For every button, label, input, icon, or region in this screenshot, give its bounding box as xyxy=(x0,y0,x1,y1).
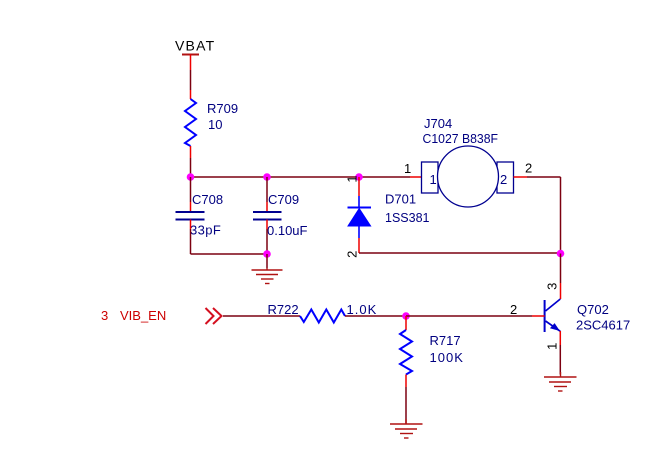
node junction at gnd rail xyxy=(263,250,271,258)
wire D701 top pin xyxy=(358,177,360,196)
wire emitter down xyxy=(559,331,561,345)
svg-text:J704: J704 xyxy=(424,116,452,131)
connector J704 (vibration motor) xyxy=(422,116,514,207)
wire vertical motor to junction xyxy=(560,177,562,254)
svg-text:Q702: Q702 xyxy=(577,302,609,317)
wire junction to R717 xyxy=(405,316,407,330)
wire bottom gnd rail xyxy=(191,253,268,255)
wire junction to collector xyxy=(560,254,562,284)
svg-text:3: 3 xyxy=(545,283,560,290)
svg-text:VIB_EN: VIB_EN xyxy=(120,308,166,323)
wire R722 to junction xyxy=(345,315,406,317)
svg-text:100K: 100K xyxy=(430,350,464,365)
wire VIB_EN to R722 xyxy=(223,315,300,317)
wire top rail xyxy=(191,176,411,178)
svg-text:R722: R722 xyxy=(268,302,299,317)
wire VBAT to R709 xyxy=(190,70,192,90)
node junction at D701 xyxy=(355,173,363,181)
svg-text:3: 3 xyxy=(101,308,108,323)
node junction at C709 xyxy=(263,173,271,181)
svg-text:2: 2 xyxy=(525,161,532,176)
ground (below C709) xyxy=(252,268,283,284)
diode D701 xyxy=(348,192,430,239)
svg-text:C1027 B838F: C1027 B838F xyxy=(423,131,499,146)
resistor R717 xyxy=(400,330,464,375)
capacitor C708 xyxy=(176,192,224,238)
ground (below Q702) xyxy=(544,372,577,391)
wire J704 pin2 to vertical xyxy=(514,176,528,178)
svg-text:2SC4617: 2SC4617 xyxy=(576,318,630,333)
svg-text:1: 1 xyxy=(404,161,411,176)
svg-text:33pF: 33pF xyxy=(190,223,221,238)
svg-text:VBAT: VBAT xyxy=(175,38,215,54)
svg-text:2: 2 xyxy=(345,251,360,258)
wire R717 to ground xyxy=(405,375,407,388)
svg-text:R709: R709 xyxy=(207,101,238,116)
wire D701 bottom pin xyxy=(358,238,360,253)
wire junction to Q702 base xyxy=(406,315,532,317)
wire C708 bottom xyxy=(190,220,192,230)
wire D701 to collector node xyxy=(359,252,561,254)
wire C709 bottom xyxy=(266,220,268,230)
transistor Q702 xyxy=(545,299,631,333)
svg-text:D701: D701 xyxy=(385,192,416,207)
resistor R709 xyxy=(185,99,238,146)
resistor R722 xyxy=(268,302,378,323)
wire C708 top xyxy=(190,177,192,202)
svg-text:C709: C709 xyxy=(268,192,299,207)
node junction collector xyxy=(557,250,565,258)
svg-text:2: 2 xyxy=(510,302,517,317)
svg-text:1.0K: 1.0K xyxy=(347,302,378,317)
capacitor C709 xyxy=(253,192,308,238)
svg-text:1: 1 xyxy=(345,175,360,182)
svg-text:2: 2 xyxy=(500,172,507,187)
wire R709 to top rail xyxy=(190,146,192,158)
off-page connector VIB_EN xyxy=(101,308,222,324)
svg-text:0.10uF: 0.10uF xyxy=(267,223,308,238)
power symbol VBAT xyxy=(175,38,215,71)
svg-text:1SS381: 1SS381 xyxy=(385,210,430,225)
svg-text:C708: C708 xyxy=(192,192,223,207)
svg-text:10: 10 xyxy=(208,117,222,132)
svg-text:R717: R717 xyxy=(430,333,461,348)
wire C709 top xyxy=(266,177,268,202)
svg-text:1: 1 xyxy=(545,343,560,350)
svg-text:1: 1 xyxy=(430,172,437,187)
node junction at R717 xyxy=(402,312,410,320)
ground (below R717) xyxy=(390,419,423,438)
wire to ground xyxy=(266,254,268,268)
node junction at R709/C708 xyxy=(187,173,195,181)
